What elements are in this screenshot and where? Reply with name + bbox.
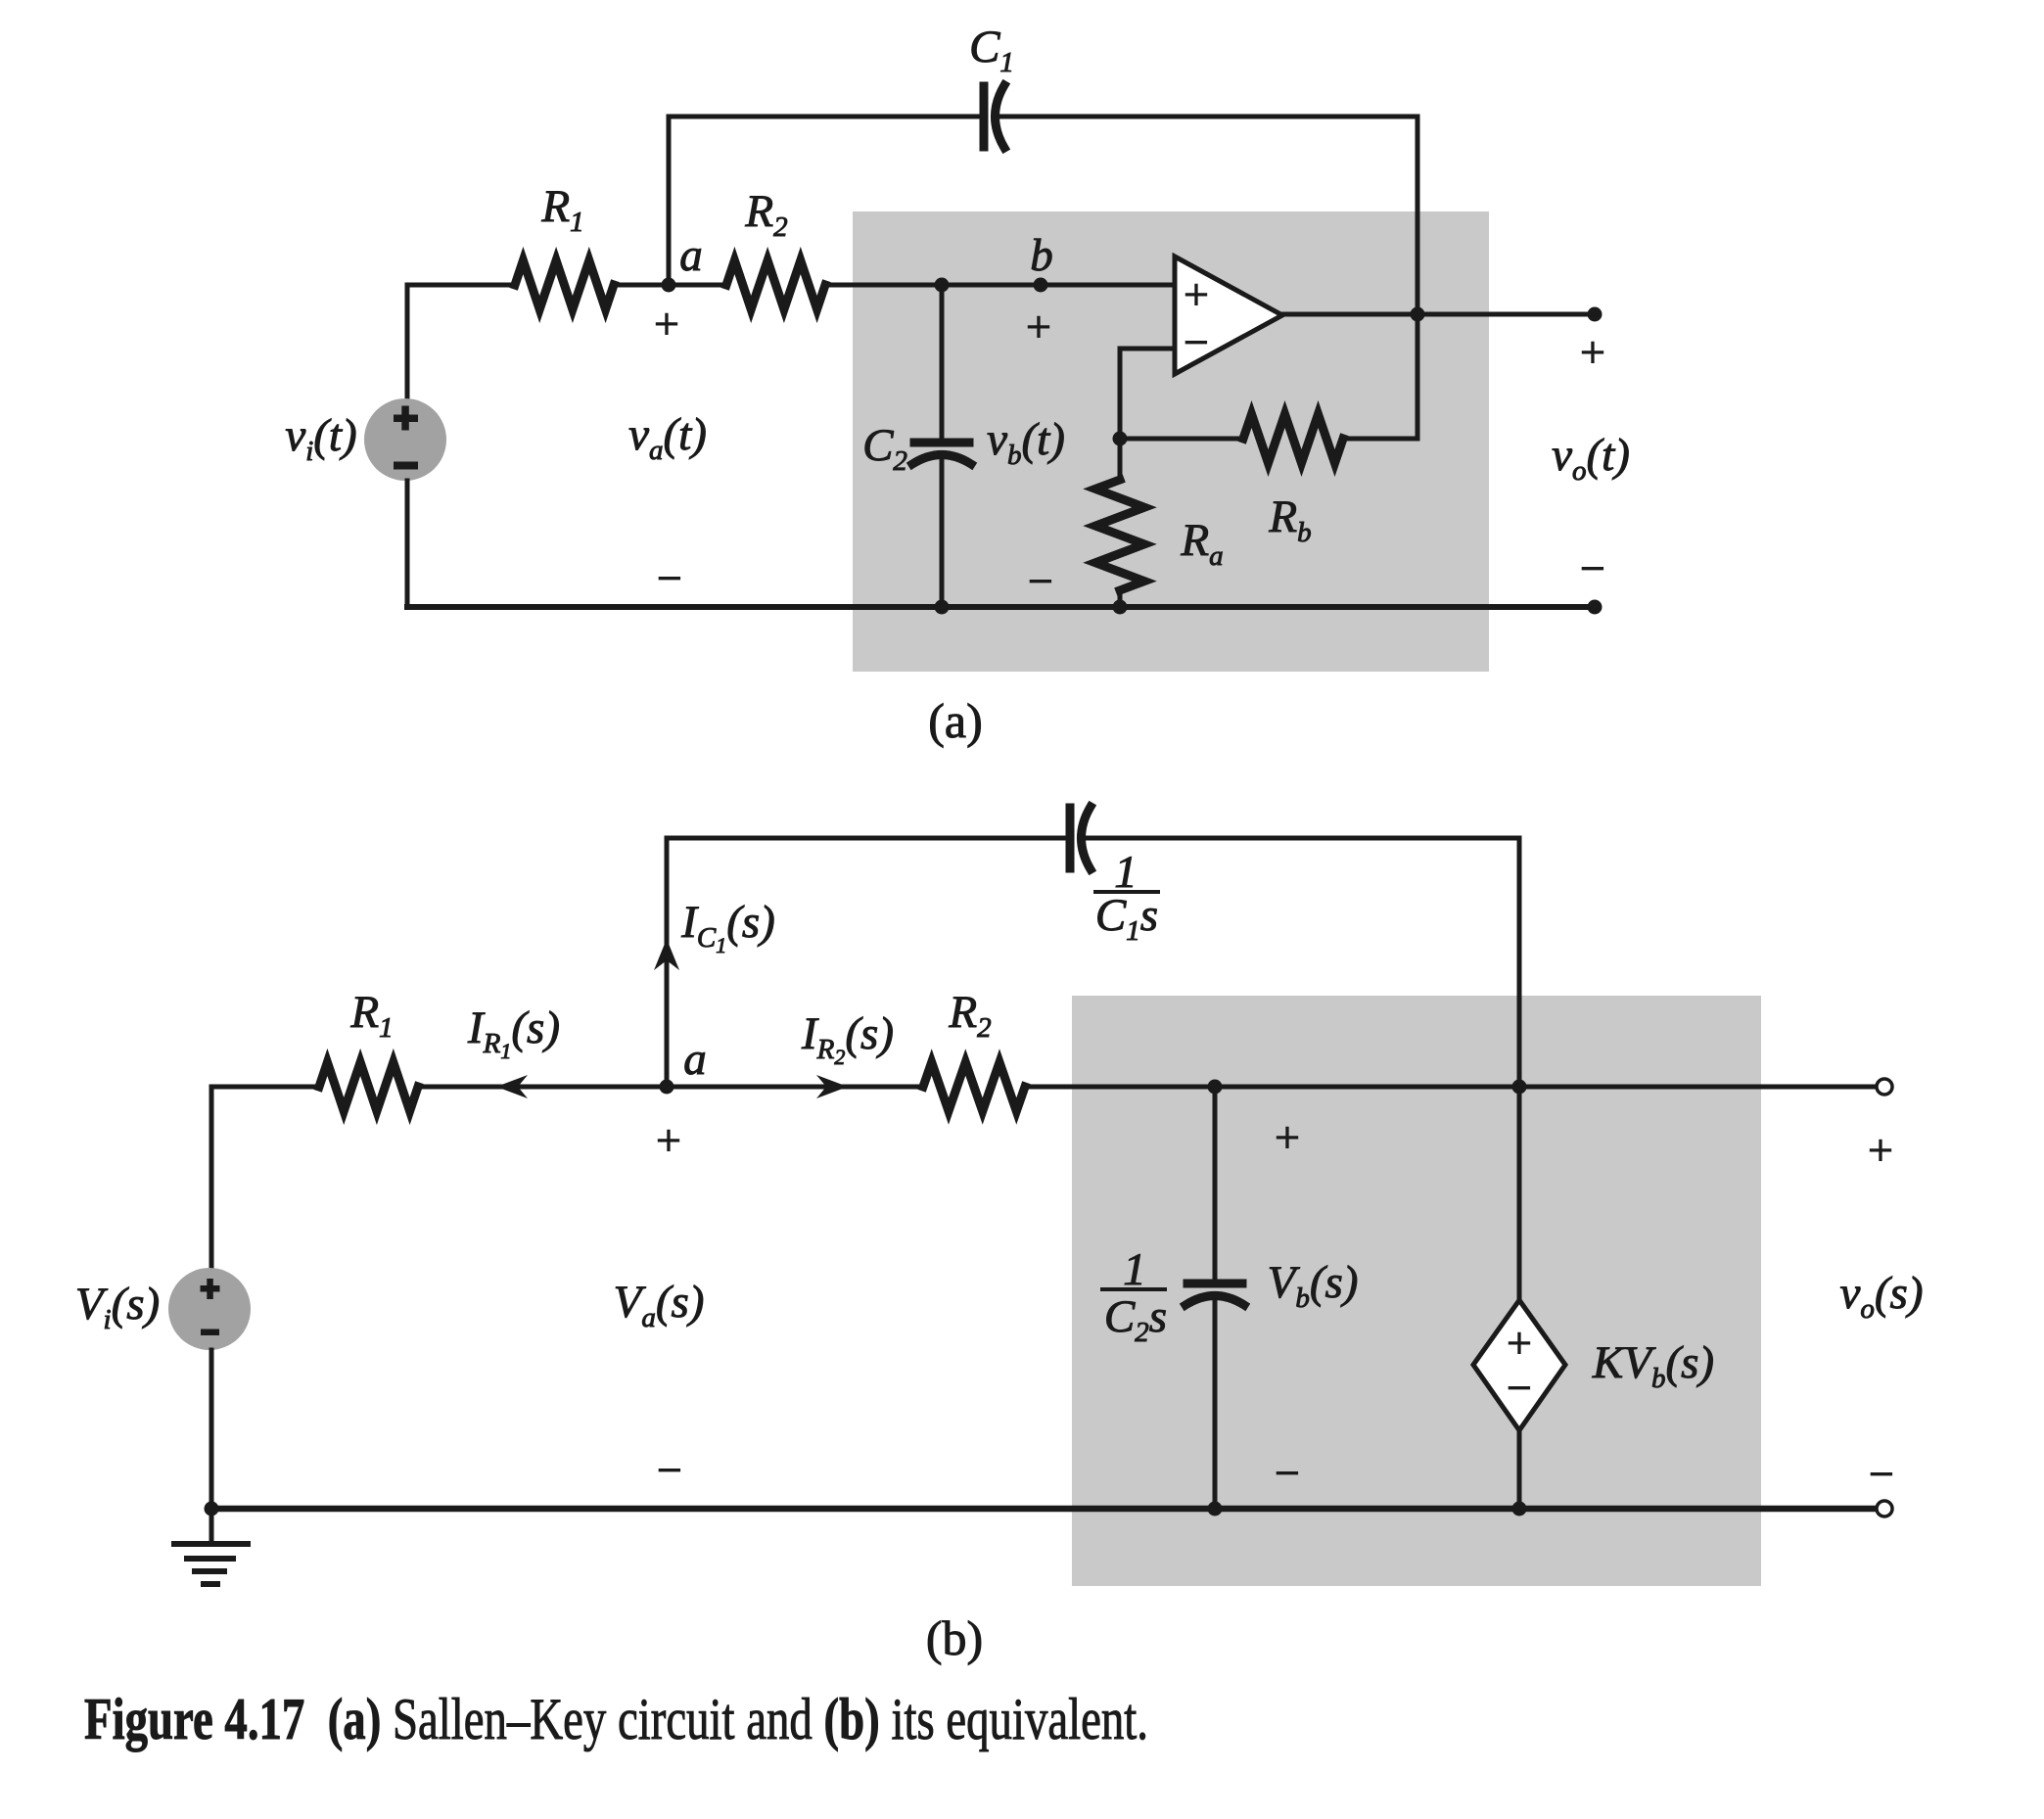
capacitor 1/C1s curved plate (b) xyxy=(1082,807,1092,869)
svg-text:Figure 4.17 (a) Sallen–Key ci: Figure 4.17 (a) Sallen–Key circuit and (… xyxy=(84,1687,1148,1751)
wire: output lead (b) xyxy=(1519,1085,1877,1090)
svg-text:vo(s): vo(s) xyxy=(1840,1268,1924,1325)
node dot top of C2 (a) xyxy=(935,278,950,293)
wire: Ra top stub (a) xyxy=(1118,439,1123,480)
node dot ground junction (b) xyxy=(205,1502,219,1516)
wire: bottom return wire (a) xyxy=(407,604,1595,610)
node dot output junction (a) xyxy=(1411,307,1425,322)
svg-text:−: − xyxy=(1184,317,1209,367)
wire: main input row (a) xyxy=(407,283,515,288)
ground xyxy=(174,1509,248,1584)
capacitor 1/C1s flat plate (b) xyxy=(1066,808,1075,868)
capacitor C2 curved plate (a) xyxy=(912,455,971,465)
svg-text:+: + xyxy=(654,299,679,349)
resistor Ra xyxy=(1095,480,1144,590)
wire: top feedback wire right segment (a) xyxy=(1000,117,1417,439)
svg-text:a: a xyxy=(679,230,703,281)
svg-text:Vb(s): Vb(s) xyxy=(1268,1257,1359,1314)
wire: Ra bottom stub (a) xyxy=(1118,590,1123,607)
svg-text:+: + xyxy=(1184,269,1209,319)
node dot inverting junction (a) xyxy=(1113,432,1128,446)
label minus inside Vi source xyxy=(201,1329,219,1336)
capacitor C1 curved plate xyxy=(996,85,1005,148)
shaded amplifier box (a) xyxy=(853,211,1489,672)
voltage source Vi(s) circle (b) xyxy=(168,1268,251,1350)
svg-text:+: + xyxy=(1580,327,1605,377)
svg-text:+: + xyxy=(1868,1125,1893,1175)
dependent source KVb(s) diamond xyxy=(1473,1300,1565,1430)
node a dot (a) xyxy=(662,278,676,293)
svg-text:+: + xyxy=(1507,1318,1532,1368)
capacitor C2 wire lower (a) xyxy=(940,456,945,607)
capacitor 1/C2s wire upper (b) xyxy=(1213,1087,1218,1281)
svg-text:−: − xyxy=(657,553,682,603)
wire: R1 to node a (b) xyxy=(418,1085,669,1090)
wire: feedback row to Rb (a) xyxy=(1120,437,1243,442)
svg-text:(a): (a) xyxy=(928,693,983,748)
label minus inside vi source xyxy=(394,462,418,470)
wire: junction to diamond top (b) xyxy=(1517,1087,1522,1300)
svg-text:−: − xyxy=(1028,556,1053,606)
svg-text:−: − xyxy=(1275,1448,1300,1498)
wire: C2 node to diamond junction (b) xyxy=(1215,1085,1519,1090)
svg-text:IR2(s): IR2(s) xyxy=(801,1008,894,1069)
svg-text:−: − xyxy=(1869,1449,1894,1499)
svg-text:R2: R2 xyxy=(948,987,991,1044)
node a dot (b) xyxy=(660,1080,674,1095)
current arrow IR2(s) xyxy=(816,1075,848,1098)
resistor R2 (b) xyxy=(923,1062,1025,1111)
resistor R1 (b) xyxy=(319,1062,418,1111)
wire: Rb to output vertical (a) xyxy=(1343,437,1417,442)
svg-text:−: − xyxy=(1507,1363,1532,1413)
svg-text:Vi(s): Vi(s) xyxy=(75,1279,160,1335)
voltage source vi(t) circle (a) xyxy=(364,398,446,481)
svg-text:C1s: C1s xyxy=(1095,890,1158,947)
current arrow IR1(s) xyxy=(496,1075,528,1098)
node dot diamond junction (b) xyxy=(1512,1080,1527,1095)
output terminal dot top (a) xyxy=(1588,307,1603,322)
svg-text:(b): (b) xyxy=(926,1610,983,1665)
svg-text:−: − xyxy=(1580,543,1605,593)
svg-text:+: + xyxy=(656,1115,681,1165)
voltage source Vi(s) wire bottom (b) xyxy=(209,1350,214,1509)
resistor Rb xyxy=(1243,414,1343,463)
voltage source vi(t) wire top (a) xyxy=(405,285,410,398)
shaded dependent-source box (b) xyxy=(1072,996,1761,1586)
svg-text:vo(t): vo(t) xyxy=(1552,430,1630,487)
fraction bar 1/C1s xyxy=(1095,890,1158,894)
svg-text:+: + xyxy=(1275,1112,1300,1162)
wire: node a to R2 (a) xyxy=(614,283,726,288)
svg-text:C1: C1 xyxy=(969,22,1014,78)
capacitor C2 wire upper (a) xyxy=(940,285,945,440)
svg-text:Va(s): Va(s) xyxy=(614,1277,705,1333)
svg-text:R1: R1 xyxy=(349,987,393,1044)
wire: bottom return wire (b) xyxy=(211,1506,1884,1513)
wire: R2 to op-amp input (a) xyxy=(825,283,1175,288)
node dot bottom of C2 (a) xyxy=(935,600,950,615)
label plus inside vi source xyxy=(394,406,418,431)
svg-text:IC1(s): IC1(s) xyxy=(680,897,775,957)
wire: diamond to bottom (b) xyxy=(1517,1430,1522,1509)
svg-text:vi(t): vi(t) xyxy=(285,410,356,467)
svg-text:a: a xyxy=(683,1034,707,1085)
capacitor 1/C2s curved plate (b) xyxy=(1185,1296,1244,1306)
node dot C2 bottom (b) xyxy=(1208,1502,1223,1516)
capacitor C1 flat plate xyxy=(980,86,989,147)
resistor R1 (a) xyxy=(515,260,614,309)
wire: R2 to C2 node (b) xyxy=(1025,1085,1215,1090)
wire: left segment main row (b) xyxy=(211,1085,319,1090)
wire: node a to R2 (b) xyxy=(667,1085,923,1090)
wire: top feedback wire left segment (a) xyxy=(669,117,980,285)
svg-text:va(t): va(t) xyxy=(628,409,707,466)
wire: op-amp output (a) xyxy=(1282,312,1595,317)
svg-text:R2: R2 xyxy=(744,186,787,243)
node dot top of 1/C2s (b) xyxy=(1208,1080,1223,1095)
node dot diamond bottom (b) xyxy=(1512,1502,1527,1516)
resistor R2 (a) xyxy=(726,260,825,309)
fraction bar 1/C2s xyxy=(1102,1287,1165,1291)
output terminal dot bottom (a) xyxy=(1588,600,1603,615)
wire: top feedback wire left segment (b) xyxy=(667,838,1066,1087)
svg-text:IR1(s): IR1(s) xyxy=(467,1003,560,1063)
voltage source Vi(s) wire top (b) xyxy=(209,1087,214,1268)
capacitor C2 flat plate (a) xyxy=(914,439,969,447)
current arrow IC1(s) xyxy=(654,939,679,970)
svg-text:+: + xyxy=(1026,302,1051,351)
op-amp U1 triangle xyxy=(1175,257,1282,374)
wire: top feedback wire right segment (b) xyxy=(1087,838,1519,1087)
label plus inside Vi source xyxy=(201,1279,220,1299)
open terminal top (b) xyxy=(1877,1079,1892,1095)
node b dot (a) xyxy=(1034,278,1048,293)
wire: op-amp inverting input stub (a) xyxy=(1120,349,1175,439)
voltage source vi(t) wire bottom (a) xyxy=(405,481,410,607)
open terminal bottom (b) xyxy=(1877,1501,1892,1516)
svg-text:b: b xyxy=(1030,230,1053,281)
capacitor 1/C2s wire lower (b) xyxy=(1213,1297,1218,1509)
svg-text:−: − xyxy=(657,1445,682,1495)
capacitor 1/C2s flat plate (b) xyxy=(1187,1280,1242,1288)
svg-text:vb(t): vb(t) xyxy=(987,414,1065,471)
node dot Ra bottom (a) xyxy=(1113,600,1128,615)
svg-text:R1: R1 xyxy=(540,181,583,238)
